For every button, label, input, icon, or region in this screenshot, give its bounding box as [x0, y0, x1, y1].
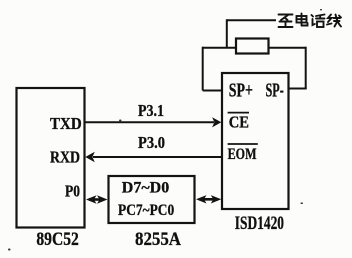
svg-text:SP+: SP+ — [229, 81, 253, 102]
svg-text:P0: P0 — [65, 182, 80, 201]
svg-text:SP-: SP- — [266, 81, 284, 102]
svg-text:D7~D0: D7~D0 — [122, 180, 169, 197]
svg-text:CE: CE — [229, 113, 249, 132]
svg-text:ISD1420: ISD1420 — [235, 214, 284, 234]
svg-text:P3.0: P3.0 — [138, 133, 165, 152]
svg-text:RXD: RXD — [50, 148, 80, 167]
svg-text:EOM: EOM — [228, 144, 257, 163]
svg-text:TXD: TXD — [50, 114, 82, 133]
svg-text:P3.1: P3.1 — [138, 101, 164, 120]
svg-text:8255A: 8255A — [135, 229, 181, 250]
svg-text:PC7~PC0: PC7~PC0 — [118, 202, 174, 219]
svg-text:89C52: 89C52 — [36, 229, 78, 250]
